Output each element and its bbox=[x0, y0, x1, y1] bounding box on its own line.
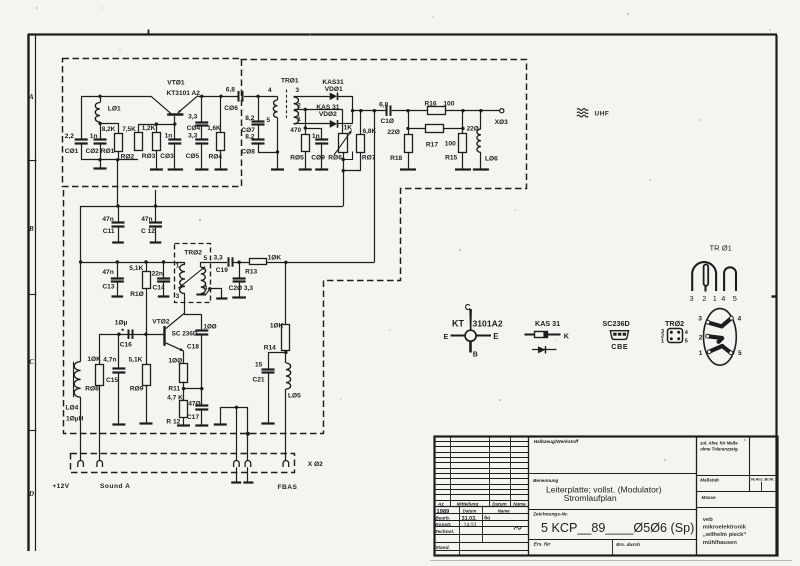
svg-text:CØ2: CØ2 bbox=[86, 148, 100, 155]
label C01 value 2,2 bbox=[65, 133, 74, 140]
ground under R12 bbox=[177, 418, 190, 426]
wire R03 ground to bus stub bbox=[155, 190, 157, 206]
wire R10 bottom to base bbox=[146, 289, 148, 335]
svg-text:RØ7: RØ7 bbox=[362, 155, 376, 162]
label C20 bbox=[229, 285, 243, 292]
capacitor C21 bbox=[261, 353, 274, 424]
label C02 bbox=[86, 148, 100, 155]
dashed boundary mixer/sound region bbox=[64, 60, 527, 434]
transformer TR02 secondary bbox=[196, 262, 206, 295]
svg-text:5 KCP__89____Ø5Ø6 (Sp): 5 KCP__89____Ø5Ø6 (Sp) bbox=[541, 521, 694, 535]
label R01 value 8,2K bbox=[102, 126, 116, 133]
wire L01 to R01 bbox=[101, 124, 119, 134]
staff table column 2 bbox=[482, 506, 484, 542]
svg-text:B: B bbox=[473, 352, 478, 359]
svg-text:3,3: 3,3 bbox=[214, 255, 223, 262]
resistor R07 bbox=[357, 135, 365, 153]
wire FBAS bracket bbox=[220, 407, 248, 409]
svg-text:VTØ2: VTØ2 bbox=[152, 318, 170, 325]
trimmer R06 wiper arrow bbox=[334, 130, 352, 155]
label VD01 bbox=[325, 86, 343, 93]
svg-text:7,5K: 7,5K bbox=[122, 126, 136, 133]
label Ers. fuer bbox=[534, 542, 552, 548]
pin X02-3 bbox=[234, 460, 240, 467]
svg-text:C18: C18 bbox=[187, 344, 199, 351]
node sound join bbox=[373, 109, 376, 112]
svg-text:4,7n: 4,7n bbox=[103, 356, 116, 363]
svg-text:3,3: 3,3 bbox=[244, 285, 253, 292]
label Benennung bbox=[533, 478, 558, 483]
svg-text:CØ6: CØ6 bbox=[224, 105, 238, 112]
svg-text:3: 3 bbox=[296, 87, 300, 94]
ground FBAS bracket left bbox=[214, 407, 227, 424]
svg-text:C19: C19 bbox=[216, 267, 228, 274]
label R11 value 100 bbox=[168, 358, 182, 365]
company name line 3 bbox=[703, 532, 747, 538]
label L06 bbox=[485, 156, 498, 163]
UHF wave symbol bbox=[577, 109, 588, 117]
label TR02 pin 1 bbox=[176, 262, 180, 269]
svg-text:KAS 31: KAS 31 bbox=[316, 104, 339, 111]
wire R05-C09 link bbox=[305, 128, 321, 130]
svg-text:RØ9: RØ9 bbox=[130, 385, 144, 392]
label C03 value 1n bbox=[165, 133, 173, 140]
svg-text:VTØ1: VTØ1 bbox=[167, 80, 185, 87]
svg-text:+12V: +12V bbox=[53, 483, 70, 490]
svg-text:C15: C15 bbox=[106, 377, 118, 384]
svg-text:KAS 31: KAS 31 bbox=[535, 319, 560, 328]
company name line 1 bbox=[703, 517, 713, 523]
svg-text:KT: KT bbox=[452, 318, 464, 328]
label C11 value 47n bbox=[102, 216, 113, 223]
label R07 value 6,8K bbox=[363, 128, 377, 135]
label R08 value 10K bbox=[87, 356, 101, 363]
legend TR02 pin label 5 bbox=[685, 339, 688, 345]
capacitor C09 bbox=[315, 140, 328, 144]
svg-text:5: 5 bbox=[685, 339, 688, 345]
transformer TR01 secondary bbox=[294, 97, 299, 124]
ground under C05 bbox=[195, 144, 208, 170]
transistor VT1 collector lead bbox=[151, 96, 171, 113]
title block outer frame bbox=[435, 437, 778, 556]
wire bias drop to bus bbox=[117, 160, 119, 206]
transistor VT2 base bar bbox=[163, 326, 165, 346]
label L04 bbox=[66, 404, 79, 411]
legend TR02 footprint bbox=[668, 329, 683, 343]
svg-text:RØ8: RØ8 bbox=[85, 385, 99, 392]
resistor R08 bbox=[96, 334, 104, 461]
capacitor C03 bbox=[168, 140, 181, 144]
wire R04 top bbox=[220, 96, 222, 133]
wire TR01 pin1 out bbox=[294, 123, 330, 125]
resistor R15 bbox=[459, 134, 467, 153]
label TR01 pin 2 bbox=[297, 103, 301, 110]
svg-text:1n: 1n bbox=[90, 133, 98, 140]
label KAS 31 (VD02) bbox=[316, 104, 339, 111]
wire top rail left bbox=[81, 96, 151, 98]
wire FBAS right drop bbox=[247, 407, 249, 461]
wire R18 top bbox=[408, 128, 410, 134]
dashed connector box X02 bbox=[71, 454, 295, 473]
label C08 value 8,2 bbox=[245, 133, 254, 140]
wire C04 drop bbox=[201, 96, 203, 123]
legend TR01 winding tap 2 bbox=[704, 264, 709, 291]
capacitor C17 bbox=[195, 389, 208, 426]
label KT3101 A2 bbox=[167, 90, 201, 97]
node L01 bottom bbox=[98, 122, 101, 125]
revision header row line bbox=[434, 500, 528, 502]
svg-text:LØ1: LØ1 bbox=[108, 106, 121, 113]
legend label TR02 bbox=[665, 319, 684, 328]
node C07 top bbox=[256, 95, 259, 98]
pin X02-5 (FBAS) bbox=[283, 461, 289, 468]
svg-text:Bearb.: Bearb. bbox=[435, 515, 450, 521]
label R02 bbox=[121, 153, 135, 160]
label R05 value 470 bbox=[290, 127, 301, 134]
svg-text:D: D bbox=[28, 490, 34, 498]
label C18 bbox=[187, 344, 199, 351]
label 1989 bbox=[436, 509, 450, 515]
resistor R14 bbox=[282, 325, 290, 351]
svg-text:2: 2 bbox=[297, 103, 301, 110]
label R03 value 1,2K bbox=[142, 125, 156, 132]
svg-text:1: 1 bbox=[661, 339, 664, 345]
svg-text:8,2: 8,2 bbox=[245, 115, 254, 122]
wire R05 drop bbox=[305, 109, 307, 128]
label R06 value 1K bbox=[344, 124, 353, 131]
revision header bottom line bbox=[434, 506, 528, 508]
staff table column 1 bbox=[459, 506, 461, 555]
label R04 value 1,6K bbox=[207, 125, 221, 132]
label R04 bbox=[209, 153, 223, 160]
label Bl.Nr bbox=[764, 477, 774, 482]
label C15 value 4,7n bbox=[103, 356, 116, 363]
label R10 bbox=[130, 291, 144, 298]
svg-text:SC236D: SC236D bbox=[603, 319, 630, 328]
label R10 value 5,1K bbox=[129, 265, 143, 272]
wire R06 wiper tie bbox=[344, 152, 353, 160]
diode VD01 bbox=[330, 92, 338, 100]
label C13 value 47n bbox=[102, 269, 113, 276]
label VT01 bbox=[167, 80, 185, 87]
legend TR01 winding 4-5 bbox=[724, 267, 736, 291]
svg-text:FBAS: FBAS bbox=[278, 484, 298, 491]
svg-text:Sound A: Sound A bbox=[100, 483, 130, 490]
label R18 bbox=[390, 155, 402, 162]
wire R16 out bbox=[445, 110, 499, 112]
label Ers. durch bbox=[616, 542, 640, 548]
node row2 left bbox=[406, 127, 409, 130]
svg-text:Az: Az bbox=[437, 501, 444, 506]
capacitor C12 bbox=[149, 206, 162, 243]
svg-text:3101A2: 3101A2 bbox=[473, 318, 503, 328]
ers divider bbox=[612, 540, 614, 555]
ground under TR01 primary bbox=[271, 152, 284, 170]
company row line bbox=[696, 507, 777, 509]
label Konstr bbox=[435, 522, 452, 528]
svg-text:6,8: 6,8 bbox=[379, 101, 388, 108]
wire C21 link bbox=[268, 352, 286, 354]
node VD junction bbox=[351, 109, 354, 112]
svg-text:8,2: 8,2 bbox=[245, 133, 254, 140]
svg-text:5: 5 bbox=[204, 255, 208, 262]
node L06 top join bbox=[479, 109, 482, 112]
svg-text:Datum: Datum bbox=[463, 509, 477, 514]
node C20 top bbox=[237, 261, 240, 264]
svg-text:TRØ1: TRØ1 bbox=[281, 78, 299, 85]
svg-text:22Ø: 22Ø bbox=[387, 129, 399, 136]
svg-text:6o: 6o bbox=[484, 515, 490, 521]
staff table row 2 bbox=[434, 520, 528, 522]
svg-text:1989: 1989 bbox=[436, 509, 450, 515]
capacitor C06 bbox=[239, 91, 243, 102]
svg-text:CØ3: CØ3 bbox=[160, 153, 174, 160]
node crossing blob bbox=[246, 432, 250, 436]
transistor VT2 emitter lead bbox=[166, 343, 184, 351]
capacitor C01 bbox=[75, 140, 88, 144]
wire R03 top bbox=[156, 124, 158, 133]
node row2 start bbox=[79, 260, 82, 263]
ground under C02 bbox=[94, 160, 107, 169]
node C17 top bbox=[200, 387, 203, 390]
svg-text:C21: C21 bbox=[253, 376, 265, 383]
legend TR02 pin label 4 bbox=[685, 330, 689, 336]
legend KAS31 diode symbol bbox=[532, 346, 557, 353]
node R11 bottom bbox=[182, 387, 185, 390]
label R12 value 4,7K bbox=[167, 394, 183, 401]
resistor R12 bbox=[180, 389, 188, 418]
svg-text:C14: C14 bbox=[153, 284, 165, 291]
node R04 top bbox=[219, 95, 222, 98]
wire TR02 pin5 out bbox=[201, 262, 227, 264]
label C21 value 15 bbox=[255, 362, 263, 369]
node output row left bbox=[406, 109, 409, 112]
label C21 bbox=[253, 376, 265, 383]
wire C01 bottom bbox=[81, 144, 83, 160]
label L01 bbox=[108, 106, 121, 113]
svg-text:1: 1 bbox=[176, 262, 180, 269]
wire R01 bottom bbox=[118, 152, 120, 160]
label C10 value 6,8 bbox=[379, 101, 388, 108]
svg-text:5,1K: 5,1K bbox=[129, 356, 143, 363]
dashed box TR02 bbox=[175, 244, 211, 303]
ground under C03 bbox=[168, 144, 183, 170]
svg-text:Name: Name bbox=[513, 501, 526, 506]
ground below X02 right bbox=[243, 467, 253, 483]
label C16 bbox=[120, 341, 132, 348]
svg-text:Technol.: Technol. bbox=[435, 529, 455, 535]
label C12 bbox=[141, 228, 155, 235]
label +12V bbox=[53, 483, 70, 490]
legend label K bbox=[564, 332, 570, 341]
svg-text:1: 1 bbox=[699, 350, 703, 357]
label Datum small bbox=[463, 509, 477, 514]
svg-text:veb: veb bbox=[703, 517, 713, 523]
svg-text:1n: 1n bbox=[312, 133, 320, 140]
label C03 bbox=[160, 153, 174, 160]
resistor R03 bbox=[153, 133, 161, 151]
wire R06 bottom bbox=[343, 152, 345, 206]
node R05 top bbox=[304, 126, 307, 129]
label W.Anz bbox=[751, 477, 764, 482]
resistor R11 bbox=[180, 364, 188, 383]
title block divider right column bbox=[696, 436, 698, 555]
svg-text:C16: C16 bbox=[120, 341, 132, 348]
svg-text:TRØ2: TRØ2 bbox=[184, 249, 202, 256]
wire R11 bottom bbox=[183, 382, 185, 389]
wanz divider bbox=[761, 482, 763, 492]
node R06 bottom wiper tie bbox=[342, 158, 345, 161]
svg-text:SC 236D: SC 236D bbox=[172, 331, 198, 338]
svg-text:E: E bbox=[493, 332, 499, 341]
label Stand bbox=[435, 545, 450, 551]
legend TR02 oval pin 1 bbox=[699, 350, 703, 357]
wire R17 out bbox=[444, 128, 463, 130]
ground under R03 bbox=[150, 151, 163, 170]
svg-text:3,3: 3,3 bbox=[188, 113, 197, 120]
title text line 1 bbox=[546, 485, 662, 495]
label Zeichnungs-Nr bbox=[532, 512, 568, 518]
wire bus left drop bbox=[80, 206, 82, 362]
capacitor C08 bbox=[252, 140, 265, 144]
benennung row line bbox=[528, 473, 696, 475]
resistor R02 bbox=[135, 133, 143, 151]
svg-text:4: 4 bbox=[204, 285, 208, 292]
pin X02-4 bbox=[245, 461, 251, 467]
ground under R18 bbox=[400, 153, 416, 170]
wire R07 bottom link bbox=[343, 170, 361, 172]
wire R07 top bbox=[360, 111, 362, 135]
capacitor C10 bbox=[387, 105, 391, 116]
svg-text:C13: C13 bbox=[102, 283, 114, 290]
wire TR02 pin4 ground bbox=[210, 289, 228, 299]
label R15 value 220 bbox=[467, 126, 479, 133]
svg-text:1: 1 bbox=[297, 116, 301, 123]
label KAS31 (VD01) bbox=[322, 79, 344, 86]
label SC 236D bbox=[172, 331, 198, 338]
label VD02 bbox=[319, 111, 337, 118]
node C13 top bbox=[116, 260, 119, 263]
wire top rail right bbox=[198, 96, 239, 98]
label Halbzeug/Werkstoff bbox=[534, 439, 579, 445]
label TR01 pin 4 bbox=[268, 87, 272, 94]
svg-text:C: C bbox=[29, 358, 34, 366]
svg-text:2,2: 2,2 bbox=[65, 133, 74, 140]
svg-text:Masse: Masse bbox=[702, 495, 716, 500]
svg-text:mikroelektronik: mikroelektronik bbox=[703, 525, 747, 531]
svg-text:VDØ2: VDØ2 bbox=[319, 111, 337, 118]
label R16 value 100 bbox=[443, 100, 454, 107]
capacitor C07 bbox=[252, 122, 265, 125]
svg-text:2: 2 bbox=[702, 294, 706, 303]
capacitor C18 bbox=[195, 315, 208, 389]
legend label SC236D bbox=[603, 319, 630, 328]
staff table row 1 bbox=[434, 513, 528, 515]
label R13 value 10K bbox=[268, 255, 282, 262]
wire bottom node rail bbox=[81, 159, 138, 161]
wire L04 to pin bbox=[80, 397, 82, 461]
svg-text:5,1K: 5,1K bbox=[129, 265, 143, 272]
wire base to C03 bbox=[174, 124, 176, 140]
svg-text:1ØØ: 1ØØ bbox=[204, 324, 217, 331]
wire C02 bottom bbox=[100, 144, 102, 160]
label C05 bbox=[186, 153, 200, 160]
legend label E right bbox=[493, 332, 499, 341]
label R12 bbox=[166, 419, 180, 426]
wire VT2 base bbox=[100, 334, 164, 336]
resistor R05 bbox=[302, 135, 310, 152]
label C08 bbox=[241, 149, 255, 156]
svg-text:zul. Abw. für Maße: zul. Abw. für Maße bbox=[699, 440, 738, 445]
svg-text:CØ9: CØ9 bbox=[311, 155, 325, 162]
label TR02 bbox=[184, 249, 202, 256]
inductor L01 bbox=[95, 96, 100, 122]
svg-text:1n: 1n bbox=[165, 133, 173, 140]
svg-text:Konstr.: Konstr. bbox=[435, 522, 452, 528]
pin X02-1 (+12V) bbox=[78, 460, 84, 467]
wire R02 top bbox=[138, 124, 140, 133]
svg-text:R14: R14 bbox=[264, 345, 276, 352]
node R10 top bbox=[144, 260, 147, 263]
svg-text:RØ3: RØ3 bbox=[142, 153, 156, 160]
capacitor C20 bbox=[232, 262, 246, 297]
resistor R01 bbox=[115, 134, 123, 152]
svg-text:LØ4: LØ4 bbox=[66, 404, 79, 411]
svg-text:RØ5: RØ5 bbox=[290, 155, 304, 162]
svg-text:RØ1: RØ1 bbox=[101, 148, 115, 155]
svg-text:1,6K: 1,6K bbox=[207, 125, 221, 132]
transformer TR01 core bbox=[286, 90, 288, 119]
wire C01 drop bbox=[81, 96, 83, 140]
wire TR02 pin4 link bbox=[206, 289, 210, 295]
label TR02 pin 5 bbox=[204, 255, 208, 262]
node C15 tap bbox=[117, 333, 120, 336]
massstab row line bbox=[696, 475, 777, 477]
svg-text:4,7 K: 4,7 K bbox=[167, 394, 183, 401]
label TR01 pin 5 bbox=[267, 117, 271, 124]
label TR01 bbox=[281, 78, 299, 85]
svg-text:2: 2 bbox=[699, 334, 703, 341]
label X02 bbox=[308, 461, 323, 468]
svg-text:3: 3 bbox=[690, 294, 694, 303]
label C06 value 6,8 bbox=[226, 86, 235, 93]
svg-text:Stromlaufplan: Stromlaufplan bbox=[564, 493, 617, 503]
svg-text:E: E bbox=[444, 334, 449, 341]
svg-text:3: 3 bbox=[698, 316, 702, 323]
svg-text:4: 4 bbox=[268, 87, 272, 94]
legend TR02 oval pin 3 bbox=[698, 316, 702, 323]
label TR02 pin 4 bbox=[204, 285, 208, 292]
wire VD02 out bbox=[338, 123, 353, 125]
label VT02 bbox=[152, 318, 170, 325]
label C07 value 8,2 bbox=[245, 115, 254, 122]
wire collector to TR02 pin3 bbox=[184, 294, 186, 315]
svg-text:LØ5: LØ5 bbox=[288, 393, 301, 400]
node R14 top bbox=[284, 261, 287, 264]
node bus C11 bbox=[116, 204, 119, 207]
label C13 bbox=[102, 283, 114, 290]
svg-text:47n: 47n bbox=[102, 269, 113, 276]
wire row2 to R17 bbox=[408, 128, 426, 130]
inductor L04 bbox=[74, 362, 81, 398]
svg-text:470: 470 bbox=[290, 127, 301, 134]
capacitor C13 bbox=[111, 262, 124, 297]
svg-text:1K: 1K bbox=[344, 124, 353, 131]
svg-text:R11: R11 bbox=[168, 385, 180, 392]
svg-text:C17: C17 bbox=[187, 414, 199, 421]
legend TR02 pin label 3 bbox=[661, 329, 664, 335]
svg-text:R1Ø: R1Ø bbox=[130, 291, 144, 298]
